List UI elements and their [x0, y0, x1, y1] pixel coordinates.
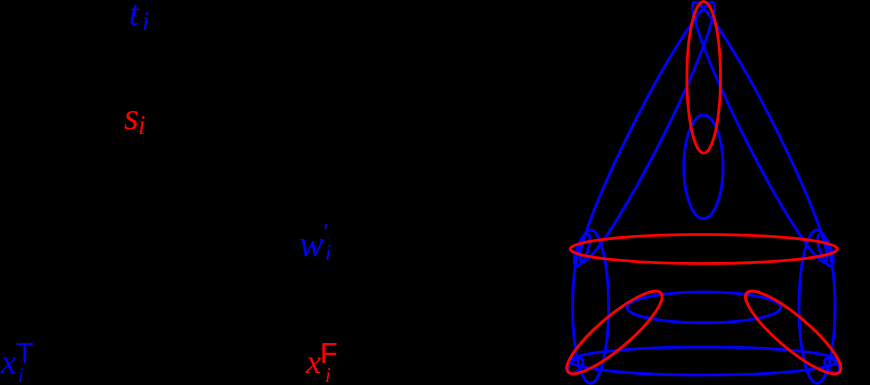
node blue right column ellipse [799, 230, 835, 383]
label t_i [129, 0, 139, 31]
node blue center tall ellipse [684, 115, 723, 219]
label x_i^F [306, 346, 321, 380]
label s_i [124, 98, 139, 136]
node red left tilted ellipse [558, 281, 672, 384]
node blue center wide ellipse [627, 292, 781, 323]
label w_i' [299, 226, 324, 263]
label x_i^T [1, 346, 16, 380]
node blue left shoulder small ellipse [571, 232, 593, 268]
node red right tilted ellipse [736, 281, 850, 384]
node blue right shoulder small ellipse [815, 232, 837, 268]
node blue bottom-left corner small ellipse [565, 355, 586, 376]
wire blue apex loop left (apex to left shoulder) [567, 0, 727, 270]
wire blue apex loop right (apex to right shoulder) [680, 0, 840, 270]
node blue bottom-right corner small ellipse [822, 355, 843, 376]
node red wide middle ellipse [570, 235, 837, 264]
node red tall top ellipse [687, 2, 721, 154]
node blue left column ellipse [573, 230, 609, 383]
node blue bottom big ellipse [570, 347, 838, 375]
